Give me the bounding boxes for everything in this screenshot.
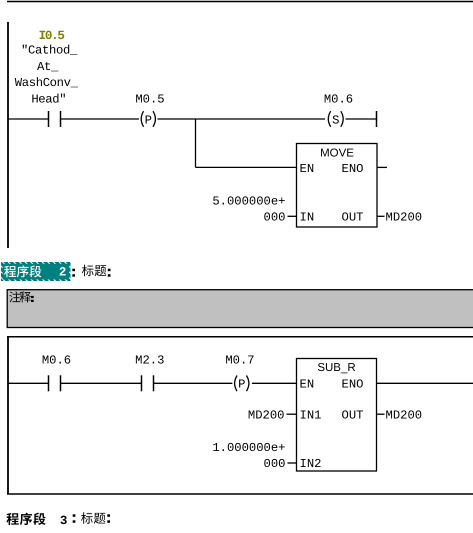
svg-text:S: S (332, 113, 339, 127)
svg-text:000: 000 (264, 210, 286, 224)
network 3 header 程序段 3 : 标题: (6, 513, 18, 525)
svg-text:″Cathod_: ″Cathod_ (21, 44, 78, 58)
wire: contact M2.3 to coil M0.7 (154, 382, 233, 384)
svg-text:M0.6: M0.6 (324, 93, 353, 107)
wire: rail to contact M0.6 (8, 382, 49, 384)
svg-text:WashConv_: WashConv_ (15, 76, 79, 90)
wire operand to IN1 (287, 413, 297, 415)
box U1 MOVE (297, 144, 378, 228)
svg-text:OUT: OUT (342, 210, 364, 224)
wire operand to IN (288, 215, 297, 217)
network 2 comment box (7, 290, 473, 328)
box U2 SUB_R (297, 359, 377, 472)
coil M0.5 (P) positive edge (141, 111, 143, 127)
wire OUT to MD200 (377, 413, 385, 415)
svg-text:MOVE: MOVE (320, 148, 354, 160)
wire ENO to right edge (377, 382, 473, 384)
svg-text:1.000000e+: 1.000000e+ (212, 441, 285, 455)
svg-text:Head″: Head″ (31, 92, 66, 106)
svg-text:M2.3: M2.3 (135, 354, 164, 368)
coil M0.6 (S) set coil (328, 111, 330, 127)
svg-text:OUT: OUT (342, 409, 364, 423)
svg-text:MD200: MD200 (386, 409, 423, 423)
wire: rail to contact I0.5 (8, 118, 49, 120)
svg-text:MD200: MD200 (386, 210, 423, 224)
wire: contact to coil M0.5 (61, 118, 140, 120)
svg-text:ENO: ENO (342, 378, 364, 392)
svg-text:P: P (238, 378, 245, 392)
wire OUT to MD200 (377, 215, 385, 217)
svg-text:2: 2 (59, 266, 67, 280)
svg-text:At_: At_ (37, 60, 59, 74)
svg-text:SUB_R: SUB_R (317, 362, 355, 374)
network 2 bottom separator line (7, 493, 473, 495)
wire: P coil to SUB_R EN (252, 382, 297, 384)
svg-text:ENO: ENO (342, 162, 364, 176)
svg-text:I0.5: I0.5 (39, 29, 65, 43)
svg-text:EN: EN (300, 162, 315, 176)
svg-text:M0.6: M0.6 (42, 354, 71, 368)
wire: P coil to S coil with junction (158, 118, 326, 120)
svg-text:000: 000 (264, 457, 286, 471)
network separator line (top) (7, 1, 473, 3)
svg-text:IN1: IN1 (300, 409, 322, 423)
svg-text:5.000000e+: 5.000000e+ (212, 195, 285, 209)
network 2 header selection (marching ants) (1, 262, 71, 281)
header text 标题: (82, 265, 94, 276)
wire: contact M0.6 to contact M2.3 (61, 382, 142, 384)
contact M2.3 (141, 375, 143, 391)
wire operand to IN2 (288, 462, 297, 464)
header text 程序段 2 (white on teal) (4, 266, 16, 278)
svg-text:M0.7: M0.7 (225, 354, 254, 368)
junction drop wire to MOVE EN (195, 119, 197, 167)
contact I0.5 (NO contact bars) (48, 111, 50, 127)
coil M0.7 (P) (235, 376, 237, 392)
svg-text:3: 3 (60, 514, 68, 528)
rung end bar network 1 (376, 111, 378, 127)
wire: S coil to rung end (346, 118, 377, 120)
network 2 separator line (7, 336, 473, 338)
svg-text:IN2: IN2 (300, 457, 322, 471)
contact M0.6 (48, 375, 50, 391)
left power rail network 2 (7, 337, 9, 494)
header colon (72, 269, 75, 272)
svg-text:IN: IN (300, 210, 315, 224)
svg-text:P: P (145, 113, 152, 127)
left power rail network 1 (7, 22, 9, 248)
svg-text:M0.5: M0.5 (135, 93, 164, 107)
comment text 注释: (9, 291, 20, 302)
svg-text:EN: EN (300, 378, 315, 392)
wire ENO output tick (377, 166, 387, 168)
svg-text:MD200: MD200 (248, 409, 285, 423)
